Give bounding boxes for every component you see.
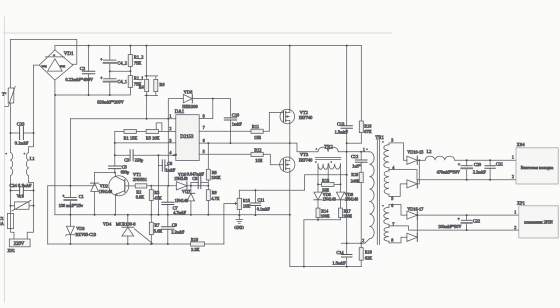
wire C13 drop through rows to C14: [346, 143, 348, 243]
svg-text:R12: R12: [254, 148, 261, 153]
varistor Vr1: [11, 193, 34, 211]
bridge rectifier VD1: [39, 50, 74, 80]
svg-text:VD7: VD7: [182, 189, 191, 194]
wire output return pin4: [392, 170, 517, 180]
node C20 top: [466, 159, 468, 161]
node R13 left: [317, 183, 319, 185]
wire C1 row (Vcc node) with left drop to bus244: [48, 186, 95, 244]
svg-text:R6: R6: [159, 82, 165, 87]
svg-text:C11: C11: [257, 198, 264, 203]
capacitor C23: [11, 122, 34, 146]
wire rails C24 to Vr1 row: [11, 191, 34, 206]
svg-text:1: 1: [363, 147, 365, 152]
svg-text:62K: 62K: [365, 255, 372, 260]
wire bridge left vertex to right EMI rail: [34, 65, 40, 133]
diode VD10-15 lower: [392, 160, 420, 196]
connector XS1 220V socket: [7, 239, 30, 253]
svg-text:1.5mkF: 1.5mkF: [335, 130, 349, 135]
wire pin6 VS row: [199, 142, 290, 144]
node C2 bottom: [88, 94, 90, 96]
svg-text:67K: 67K: [364, 129, 372, 134]
svg-text:C10: C10: [232, 112, 240, 117]
resistor R7 5.6R: [149, 215, 162, 244]
svg-text:R11: R11: [252, 124, 259, 129]
svg-text:Винтовая колодка: Винтовая колодка: [521, 165, 554, 170]
svg-text:1: 1: [514, 210, 516, 215]
wire pin1 drop to Vcc lower row: [167, 119, 169, 186]
resistor R11 15E: [251, 112, 280, 139]
node VD2 bottom on rail: [94, 214, 96, 216]
node VT1 emitter on rail: [114, 214, 116, 216]
svg-text:R9: R9: [212, 190, 217, 195]
transformer TR1 secondary 3-4: [382, 137, 393, 168]
wire B- bus to R1_1 bottom: [55, 87, 130, 95]
capacitor C24: [10, 183, 34, 197]
svg-text:2: 2: [512, 174, 514, 179]
capacitor C20 470mkF: [437, 160, 481, 179]
diode VD16-17 lower: [392, 215, 418, 243]
wire Vcc drop to C1 row: [69, 119, 71, 186]
svg-text:0.22mkF*400V: 0.22mkF*400V: [65, 77, 94, 82]
node C22 top: [466, 214, 468, 216]
svg-text:вход: вход: [60, 65, 66, 68]
svg-text:R2: R2: [136, 189, 141, 194]
wire output return pin7: [392, 226, 519, 230]
node C3 row left: [114, 154, 116, 156]
transformer TR2 core: [316, 158, 341, 160]
zener VD3 BZV85-C13: [66, 215, 96, 244]
resistor R12 15E: [251, 148, 280, 165]
node drop on TR1 pin1 row: [346, 151, 348, 153]
resistor R17 100E: [339, 208, 353, 220]
svg-text:C8: C8: [192, 176, 197, 181]
svg-text:100E: 100E: [343, 214, 352, 219]
svg-text:5: 5: [203, 149, 205, 154]
node C14 bottom on bus: [346, 266, 348, 268]
resistor R3 47K: [149, 186, 162, 215]
svg-text:1mkF: 1mkF: [165, 168, 175, 173]
svg-text:0.1mkF: 0.1mkF: [257, 206, 271, 211]
node C4 midpoint: [109, 70, 111, 72]
capacitor C10 1mkF bootstrap: [224, 99, 242, 144]
svg-text:GND: GND: [234, 225, 244, 230]
node pin3 row left: [114, 142, 116, 144]
svg-text:TR2: TR2: [324, 145, 333, 150]
svg-text:C23: C23: [17, 122, 25, 127]
svg-text:IRF740: IRF740: [299, 115, 313, 120]
node C11 bottom on rail: [254, 214, 256, 216]
node C9 bottom on bus: [167, 243, 169, 245]
node R7 bottom on bus: [150, 243, 152, 245]
svg-text:470mkF*50V: 470mkF*50V: [437, 169, 460, 174]
svg-text:VD6: VD6: [184, 89, 193, 94]
node R1 midpoint: [129, 70, 131, 72]
wire IC pin3 row: [115, 142, 176, 144]
capacitor C21 2.2mkF: [473, 160, 503, 179]
wire TR2 return jumper: [304, 219, 341, 221]
svg-text:1N4148: 1N4148: [174, 176, 188, 181]
wire VS node to TR2 primary: [290, 143, 314, 152]
wire pin8 link: [199, 99, 213, 119]
svg-text:6: 6: [391, 203, 393, 208]
node VD5 cathode junction: [190, 185, 192, 187]
node C4_1 bottom: [109, 94, 111, 96]
wire R1 row left corner: [114, 131, 116, 155]
svg-text:VT2: VT2: [300, 110, 308, 115]
wire VT2 source to VS node: [289, 124, 291, 143]
svg-text:8: 8: [203, 113, 205, 118]
svg-text:1: 1: [169, 114, 171, 119]
svg-text:R3: R3: [154, 190, 159, 195]
capacitor C9 2.2mkF: [162, 215, 185, 244]
wire VD2 cathode link to VT1 collector: [95, 172, 115, 174]
wire right rail Vr1 to plug pin: [27, 206, 33, 239]
capacitor C6 1mkF: [158, 160, 175, 173]
wire left rail fuse to plug pin: [11, 229, 15, 240]
svg-text:BZV85-C13: BZV85-C13: [76, 232, 96, 237]
wire R4R6 down to Vcc line: [146, 95, 148, 118]
svg-text:C22: C22: [473, 219, 480, 224]
thyristor VD4 MCR100-8: [103, 215, 153, 244]
node C1 bottom on rail: [69, 214, 71, 216]
node C13 R16 join: [346, 142, 348, 144]
node C24 left junction: [10, 190, 12, 192]
svg-text:XS4: XS4: [517, 142, 526, 147]
resistor R14 100E: [316, 208, 330, 220]
resistor R8 100K: [206, 143, 221, 186]
svg-text:6: 6: [203, 138, 205, 143]
svg-text:L1: L1: [30, 156, 36, 161]
transformer TR1 secondary 7-8: [384, 221, 394, 243]
wire C6 drop pin4 to ground rail: [157, 155, 159, 214]
node C24 right junction: [33, 190, 35, 192]
node Vr1 right junction: [33, 205, 35, 207]
node pin2 row at C14: [346, 242, 348, 244]
svg-text:VD1: VD1: [64, 52, 74, 57]
capacitor C11 0.1mkF: [250, 190, 270, 215]
svg-text:R4: R4: [139, 84, 145, 89]
transformer TR1 core: [377, 140, 379, 245]
svg-text:2: 2: [514, 225, 516, 230]
transformer TR1 secondary 4-5: [384, 165, 395, 201]
diode VD2 1N4148: [90, 173, 112, 215]
svg-text:2.2mkF: 2.2mkF: [473, 169, 487, 174]
transformer TR2 secondary right: [328, 161, 340, 184]
wire left rail thermistor to C23 row: [10, 103, 12, 133]
node return at R14: [317, 219, 319, 221]
svg-text:8: 8: [391, 238, 393, 243]
resistor R2 6.8K: [135, 184, 147, 200]
node R1_2 top: [129, 45, 131, 47]
wire ground rail 215: [55, 214, 290, 216]
node TR2 return on bus: [303, 266, 305, 268]
svg-text:C4_1: C4_1: [117, 79, 127, 84]
svg-text:R19: R19: [365, 249, 372, 254]
svg-text:C2: C2: [80, 66, 86, 71]
svg-text:VD10-15: VD10-15: [407, 150, 423, 155]
wire left rail C23 to L1: [10, 133, 12, 152]
svg-text:L2: L2: [427, 149, 432, 154]
svg-text:R1_2: R1_2: [134, 55, 144, 60]
svg-text:1mkF: 1mkF: [232, 121, 243, 126]
wire R15 C11 top rail and link to TR2 return: [239, 175, 346, 190]
node B- bus at bridge: [54, 94, 56, 96]
svg-text:100mkF*50V: 100mkF*50V: [438, 224, 461, 229]
svg-text:вход: вход: [42, 65, 48, 68]
node Vcc line at R4R6: [146, 118, 148, 120]
transistor VT2 IRF740: [280, 46, 313, 124]
svg-text:DA1: DA1: [175, 110, 185, 115]
node C22 bottom: [466, 229, 468, 231]
resistor R9 4.7K: [206, 186, 220, 215]
svg-text:1N4148: 1N4148: [175, 198, 189, 203]
node VD4 bottom on bus: [127, 243, 129, 245]
wire right rail C23 to L1 with jog: [29, 133, 34, 152]
wire left EMI rail: [10, 39, 12, 88]
svg-text:1n5*: 1n5*: [352, 163, 361, 168]
node row at pin1 drop: [167, 185, 169, 187]
diode VD16-17 upper: [392, 205, 519, 220]
svg-text:680p: 680p: [121, 169, 130, 174]
svg-text:C4_2: C4_2: [117, 60, 127, 65]
capacitor C8 0.047mkF: [187, 171, 208, 188]
wire B+ rail: [55, 45, 361, 47]
svg-text:5: 5: [391, 196, 393, 201]
svg-text:R5 10K: R5 10K: [146, 135, 161, 140]
svg-text:R7: R7: [154, 223, 160, 228]
inductor L2: [425, 149, 516, 160]
svg-text:220V: 220V: [14, 242, 25, 247]
IC DA1 D2153: [169, 110, 204, 160]
resistor R6 (startup pair right): [145, 76, 166, 96]
inductor L1 common-mode choke: [5, 152, 35, 175]
svg-text:C1: C1: [79, 194, 84, 199]
svg-text:VT3: VT3: [300, 152, 309, 157]
svg-text:Vr1: Vr1: [17, 193, 25, 198]
svg-text:VD16-17: VD16-17: [407, 207, 424, 212]
transformer TR1 secondary 6-7: [382, 203, 393, 224]
node VS row at VT2 source: [289, 142, 291, 144]
capacitor C7 4.7mkF: [162, 186, 187, 215]
svg-text:47K: 47K: [154, 196, 162, 201]
node R15 bottom on rail: [238, 214, 240, 216]
resistor R10 3.3K: [191, 237, 224, 252]
diode VD6 HER308: [182, 89, 230, 108]
svg-text:XS1: XS1: [7, 248, 15, 253]
faint page border line left: [4, 17, 6, 302]
svg-text:клеммник 2PIN: клеммник 2PIN: [524, 220, 552, 225]
svg-text:C13: C13: [337, 121, 345, 126]
svg-text:C20: C20: [474, 162, 481, 167]
diode VD10-15 upper: [392, 143, 426, 165]
fuse FU1 2A: [0, 214, 14, 229]
wire bottom bus 266: [290, 266, 361, 268]
wire left rail Vr1 to fuse: [10, 206, 12, 214]
resistor R1 15K: [115, 129, 138, 140]
wire right rail L1 to C24 row with jog: [29, 176, 34, 191]
svg-text:C21: C21: [496, 162, 503, 167]
resistor R1_2 75K: [128, 46, 143, 72]
svg-text:100 mkF*25v: 100 mkF*25v: [59, 203, 84, 208]
node C23 left junction: [10, 132, 12, 134]
svg-text:0.1mkF: 0.1mkF: [15, 141, 29, 146]
svg-text:820mkF*200V: 820mkF*200V: [97, 100, 124, 105]
capacitor C14 1.5mkF: [332, 243, 352, 266]
transformer TR2 secondary left: [315, 161, 328, 184]
capacitor C3 220p: [115, 150, 176, 163]
connector XS4 screw terminal: [512, 142, 558, 184]
node collector junction: [114, 172, 116, 174]
wire pin5 row: [199, 153, 251, 155]
capacitor C4_2 electrolytic: [100, 46, 127, 72]
wire R10 riser to R15 wiper: [224, 204, 235, 245]
node VD7 bottom on rail: [190, 214, 192, 216]
svg-text:VD4: VD4: [103, 222, 112, 227]
svg-text:R10: R10: [191, 237, 198, 242]
thermistor T: [2, 87, 15, 107]
svg-text:D2153: D2153: [180, 135, 194, 140]
node pin2 row at R19: [360, 242, 362, 244]
svg-text:R1 15K: R1 15K: [124, 135, 139, 140]
wire pin1 riser to VD6 anode: [168, 99, 183, 119]
node rail end at VT3 source: [289, 214, 291, 216]
node C12 top on pin1 row: [360, 151, 362, 153]
diode VD7 1N4148: [175, 186, 195, 215]
node R8 R9 junction: [207, 185, 209, 187]
svg-text:C14: C14: [336, 250, 344, 255]
node R4R6 top jumper: [146, 75, 148, 77]
resistor R19 62K: [359, 243, 372, 266]
diode VD5 1N4148: [174, 172, 188, 190]
node C7 bottom on rail: [167, 214, 169, 216]
wire Vcc line to IC pin1: [70, 118, 175, 120]
capacitor C1 electrolytic 100mkF: [59, 186, 84, 215]
node drop on gate return link: [346, 174, 348, 176]
node C1 top: [69, 185, 71, 187]
svg-text:IRF740: IRF740: [299, 158, 313, 163]
node VD4 top on rail: [127, 214, 129, 216]
node C21 bottom: [489, 179, 491, 181]
node R3 bottom on rail: [150, 214, 152, 216]
svg-text:C3: C3: [124, 157, 129, 162]
transformer TR1 primary: [361, 136, 384, 243]
svg-text:6.8K: 6.8K: [136, 195, 145, 200]
svg-text:1: 1: [512, 155, 514, 160]
node row at R3: [150, 185, 152, 187]
svg-text:T°: T°: [2, 92, 7, 97]
node C6 drop on rail: [157, 214, 159, 216]
node lower diode join: [416, 214, 418, 216]
node R4R6 top: [146, 45, 148, 47]
capacitor C5 680p: [109, 155, 130, 174]
wire TR1 pin2 row: [341, 239, 369, 243]
svg-text:C24 0.1mkF: C24 0.1mkF: [10, 183, 33, 188]
svg-text:100E: 100E: [321, 214, 330, 219]
svg-text:VD3: VD3: [76, 226, 84, 231]
svg-text:R15: R15: [322, 178, 329, 183]
node C20 bottom: [466, 179, 468, 181]
capacitor C12 1n5: [351, 152, 367, 173]
svg-text:R1_1: R1_1: [134, 76, 144, 81]
wire bottom bus 244: [48, 243, 191, 245]
node R9 bottom on rail: [207, 214, 209, 216]
node VD3 bottom: [69, 243, 71, 245]
node C21 top: [489, 159, 491, 161]
node C23 right junction: [33, 132, 35, 134]
svg-text:1N4148: 1N4148: [323, 196, 336, 201]
node VS row at R8 riser: [207, 142, 209, 144]
node C11 top: [254, 189, 256, 191]
capacitor C22 100mkF: [438, 215, 480, 230]
svg-text:TR1: TR1: [375, 136, 384, 141]
transistor VT1 2N5551: [109, 172, 147, 215]
svg-text:2: 2: [362, 238, 364, 243]
node C10 bottom on VS row: [229, 142, 231, 144]
node pin4 row near IC: [173, 154, 175, 156]
node R4R6 bottom jumper with B- bus tap: [146, 94, 148, 96]
connector XP1 terminal block: [514, 200, 558, 238]
node C13 top on B+ rail: [346, 45, 348, 47]
resistor R13 33E: [318, 178, 341, 193]
svg-text:R16: R16: [364, 123, 372, 128]
svg-text:7: 7: [203, 125, 205, 130]
wire Vcc feedback row: [147, 185, 209, 187]
resistor R16 67K: [347, 46, 373, 144]
resistor R1_1 75K: [128, 71, 144, 89]
capacitor C2: [65, 46, 94, 95]
svg-text:3: 3: [169, 138, 171, 143]
node Vr1 left junction: [10, 205, 12, 207]
svg-text:MCR100-8: MCR100-8: [116, 222, 136, 227]
svg-text:2.2mkF: 2.2mkF: [171, 229, 185, 234]
wire C4 midpoint to R1 midpoint: [110, 70, 131, 72]
diode VD8 1N4148: [314, 184, 336, 208]
svg-text:XP1: XP1: [517, 200, 525, 205]
diode VD9 1N4148: [336, 184, 358, 208]
svg-text:3.3K: 3.3K: [191, 247, 200, 252]
node R13 right: [340, 183, 342, 185]
resistor R15 10K trimmer: [235, 190, 252, 215]
svg-text:240E: 240E: [351, 178, 360, 183]
svg-text:15E: 15E: [254, 135, 261, 140]
svg-text:4.7mkF: 4.7mkF: [173, 210, 187, 215]
node VD6 cathode to pin8: [212, 98, 214, 100]
resistor R18 240E: [351, 172, 364, 243]
svg-text:R18: R18: [351, 172, 358, 177]
resistor R5 10K trimmer: [136, 123, 176, 140]
wire AC line1 top: left rail corner to bridge right vertex: [11, 39, 77, 64]
faint page border line top: [3, 32, 392, 34]
capacitor C4_1 electrolytic: [100, 71, 127, 95]
wire pin7 row: [199, 130, 251, 132]
ground symbol GND: [234, 215, 244, 230]
node C2 top: [88, 45, 90, 47]
svg-text:100K: 100K: [211, 175, 221, 180]
wire VT3 source down to bottom bus: [289, 172, 291, 266]
wire left rail L1 to C24 row: [10, 176, 12, 191]
node diode cathodes join: [418, 159, 420, 161]
svg-text:1.5mkF: 1.5mkF: [332, 260, 346, 265]
capacitor C13 1.5mkF: [335, 46, 353, 144]
wire bridge plus output stub: [54, 46, 56, 50]
svg-text:4.7K: 4.7K: [211, 196, 220, 201]
transformer TR2 primary: [313, 145, 361, 152]
svg-text:3: 3: [391, 137, 393, 142]
node IC pin1 junction: [167, 118, 169, 120]
wire bridge minus vertical down to signal rail: [54, 80, 56, 215]
transistor VT3 IRF740: [280, 143, 313, 172]
svg-text:220p: 220p: [135, 157, 144, 162]
